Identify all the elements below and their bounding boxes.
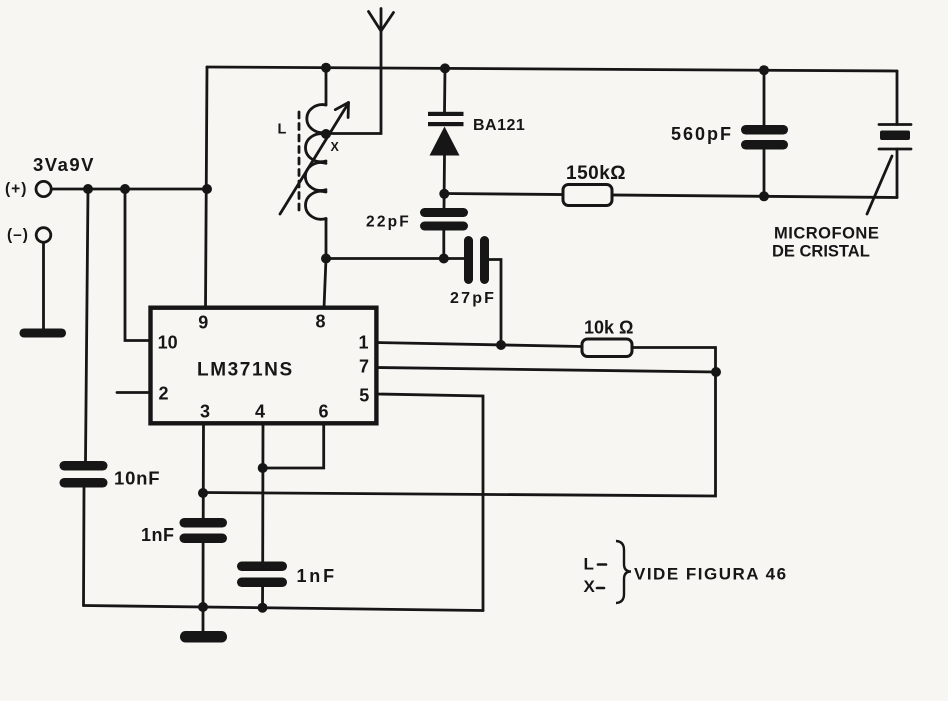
svg-text:10k Ω: 10k Ω	[584, 318, 633, 338]
svg-text:2: 2	[158, 384, 168, 404]
svg-text:1nF: 1nF	[141, 525, 175, 545]
svg-text:X: X	[584, 577, 596, 596]
svg-text:7: 7	[359, 357, 369, 377]
svg-text:560pF: 560pF	[671, 124, 733, 144]
svg-text:22pF: 22pF	[366, 214, 411, 231]
svg-text:L: L	[584, 555, 594, 574]
svg-text:27pF: 27pF	[450, 290, 496, 307]
svg-text:(–): (–)	[7, 227, 29, 244]
svg-text:10nF: 10nF	[114, 468, 160, 489]
svg-text:3: 3	[200, 402, 210, 422]
svg-text:X: X	[331, 140, 340, 154]
svg-text:(+): (+)	[5, 181, 27, 198]
svg-text:LM371NS: LM371NS	[197, 360, 294, 381]
svg-text:1: 1	[358, 333, 368, 353]
svg-text:DE CRISTAL: DE CRISTAL	[772, 243, 870, 261]
svg-text:8: 8	[315, 312, 325, 332]
svg-text:5: 5	[359, 386, 369, 406]
svg-text:1nF: 1nF	[297, 566, 337, 586]
svg-text:L: L	[278, 122, 287, 138]
svg-text:MICROFONE: MICROFONE	[774, 225, 879, 243]
svg-text:10: 10	[158, 333, 178, 353]
svg-text:6: 6	[318, 402, 328, 422]
svg-text:BA121: BA121	[473, 117, 525, 134]
svg-text:3Va9V: 3Va9V	[33, 154, 95, 175]
svg-text:150kΩ: 150kΩ	[566, 163, 626, 184]
svg-text:9: 9	[198, 313, 208, 333]
svg-text:4: 4	[255, 402, 265, 422]
svg-text:VIDE FIGURA 46: VIDE FIGURA 46	[634, 565, 788, 584]
